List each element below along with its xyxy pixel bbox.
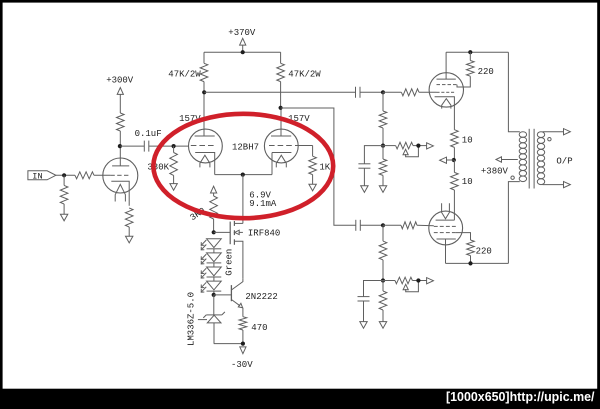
- tube V3 grid: [437, 91, 440, 93]
- resistor R14 220 screen upper: [469, 52, 471, 60]
- tube V2a heater: [200, 155, 210, 167]
- svg-text:12BH7: 12BH7: [232, 142, 259, 152]
- mosfet Q1 channel: [233, 221, 235, 226]
- node G junction gate: [212, 230, 216, 234]
- mosfet Q1 IRF840 gate bar: [229, 222, 231, 245]
- mosfet Q1 drain lead: [234, 222, 243, 224]
- svg-text:2N2222: 2N2222: [245, 292, 277, 302]
- tube V4 envelope: [429, 211, 463, 245]
- ground G6: [379, 186, 386, 193]
- svg-text:10: 10: [462, 177, 473, 187]
- pot P2 wiper: [406, 281, 419, 292]
- svg-text:330K: 330K: [147, 163, 169, 173]
- svg-text:0.1uF: 0.1uF: [135, 129, 162, 139]
- wire C4 to node B1: [360, 224, 383, 226]
- tube V2b grid: [269, 145, 275, 147]
- tube V2a envelope: [189, 129, 223, 163]
- resistor R15 10 upper: [451, 130, 459, 148]
- wire secondary top out: [543, 131, 564, 133]
- transformer T1 secondary phase dot: [548, 138, 551, 141]
- svg-text:[1000x650]http://upic.me/: [1000x650]http://upic.me/: [446, 389, 595, 404]
- ground G8: [379, 322, 386, 329]
- resistor R10 470: [239, 317, 247, 330]
- tube V1 cathode: [111, 181, 129, 206]
- wire R1 to V1 grid: [94, 174, 110, 176]
- tube V2b plate: [271, 135, 291, 137]
- wire top out rail: [446, 51, 508, 53]
- wire C1 to node C: [149, 145, 189, 147]
- svg-text:IRF840: IRF840: [248, 228, 280, 238]
- svg-text:470: 470: [251, 323, 267, 333]
- tube V1 plate: [112, 165, 129, 167]
- resistor R16 10 lower: [453, 160, 455, 172]
- svg-text:+300V: +300V: [106, 75, 134, 85]
- tube V2a cathode: [195, 153, 215, 175]
- wire gate: [214, 231, 231, 233]
- tube V4 cathode: [436, 219, 455, 221]
- ground G3: [170, 184, 177, 191]
- node A junction: [62, 173, 66, 177]
- node F junction V2b plate: [279, 106, 283, 110]
- capacitor C3 to ground: [358, 163, 370, 165]
- node B2 junction: [381, 278, 385, 282]
- wire node K down to Q1 drain: [242, 175, 244, 224]
- diode D5 LM336 ref: [213, 295, 215, 315]
- capacitor C2 coupling upper: [355, 87, 357, 98]
- node P2 junction: [416, 278, 420, 282]
- wire V1 plate to C1: [120, 145, 144, 147]
- svg-text:IN: IN: [32, 172, 42, 182]
- wire V2 cathodes common: [215, 174, 272, 176]
- wire B2 left: [364, 281, 384, 297]
- wire bottom to -30V node: [214, 343, 243, 345]
- resistor R17 grid stopper lower: [401, 222, 417, 229]
- svg-text:220: 220: [478, 67, 494, 77]
- transistor Q2 2N2222 base bar: [230, 285, 232, 301]
- svg-text:O/P: O/P: [556, 157, 572, 167]
- node P1 junction: [416, 144, 420, 148]
- tube V3 heater: [442, 99, 451, 109]
- ground G4: [309, 184, 316, 191]
- resistor R8 1K: [312, 146, 314, 157]
- wire node F right and down: [281, 108, 356, 225]
- ground G5: [361, 186, 368, 193]
- wire node E to C2: [204, 91, 355, 93]
- LED D4 green: [207, 281, 222, 290]
- node N junction cathodes out: [452, 158, 456, 162]
- svg-text:10: 10: [462, 136, 473, 146]
- ground G2: [126, 236, 133, 243]
- mosfet Q1 source lead: [234, 241, 243, 279]
- tube V2b envelope: [264, 129, 298, 163]
- LED D3 green: [207, 267, 222, 276]
- border frame left: [0, 0, 3, 409]
- node +380V center tap arrow: [501, 159, 518, 161]
- wire plate rail lower: [446, 262, 509, 264]
- resistor R20 220 screen lower: [456, 233, 471, 240]
- ground G1: [60, 214, 67, 221]
- wire C2 to node A1: [360, 91, 383, 93]
- node IN port: [28, 171, 56, 180]
- resistor R3 V1 cathode: [125, 208, 133, 227]
- border frame top: [0, 0, 600, 3]
- svg-text:220: 220: [476, 246, 492, 256]
- tube V4 heater: [442, 203, 450, 219]
- wire secondary bottom out: [543, 184, 564, 186]
- tube V1 grid: [110, 174, 114, 176]
- tube V2b heater: [276, 155, 286, 167]
- tube V3 envelope: [429, 73, 463, 107]
- tube V3 cathode: [435, 97, 455, 130]
- tube V4 screen: [434, 232, 438, 234]
- LED D1 green: [207, 239, 222, 248]
- transformer T1 core: [528, 129, 530, 189]
- resistor R12 divider upper: [382, 92, 384, 111]
- node E junction V2a plate: [202, 90, 206, 94]
- svg-text:47K/2W: 47K/2W: [168, 70, 201, 80]
- resistor R4 V1 plate load: [117, 113, 125, 131]
- tube V2b cathode: [272, 152, 291, 154]
- svg-text:9.1mA: 9.1mA: [249, 199, 277, 209]
- tube V4 grid: [434, 225, 438, 227]
- svg-text:47K/2W: 47K/2W: [288, 70, 321, 80]
- node +370V arrow: [240, 38, 246, 45]
- node N feedback arrow: [447, 159, 454, 161]
- tube V1 heater: [115, 184, 125, 201]
- highlight red ellipse: [153, 114, 333, 218]
- potentiometer P1: [396, 142, 413, 149]
- tube V1 envelope: [103, 158, 138, 193]
- resistor R11 grid stopper upper: [401, 89, 419, 96]
- resistor R9 3K9: [210, 196, 218, 219]
- svg-text:-30V: -30V: [231, 360, 253, 370]
- resistor R5 330K: [173, 146, 175, 152]
- node M junction 220: [468, 50, 472, 54]
- pot P1 wiper: [406, 146, 419, 157]
- wire V4 plate to T1 primary bottom: [508, 182, 519, 264]
- node P2 out arrow: [427, 278, 434, 284]
- resistor R2 input shunt: [63, 175, 65, 185]
- svg-text:1K: 1K: [319, 162, 330, 172]
- svg-text:+370V: +370V: [228, 28, 256, 38]
- wire top rail: [204, 51, 281, 53]
- svg-text:LM336Z-5.0: LM336Z-5.0: [187, 292, 197, 346]
- node C junction: [172, 144, 176, 148]
- border frame right: [597, 0, 600, 409]
- node A2 junction: [381, 144, 385, 148]
- resistor R1 grid series: [75, 172, 94, 179]
- wire A2 left: [364, 146, 383, 164]
- svg-text:Green: Green: [225, 249, 235, 276]
- node +300V arrow: [117, 88, 123, 95]
- tube V2a plate: [195, 135, 215, 137]
- svg-text:+380V: +380V: [481, 167, 509, 177]
- potentiometer P2: [395, 277, 412, 284]
- LED D2 green: [207, 253, 222, 262]
- capacitor C5 to ground: [358, 296, 370, 298]
- capacitor C1 0.1uF: [143, 141, 145, 152]
- resistor R18 divider lower: [382, 225, 384, 241]
- node K junction cathodes: [241, 173, 245, 177]
- tube V3 plate: [437, 78, 456, 80]
- wire V3 plate to T1 primary top: [508, 52, 519, 132]
- tube V4 plate: [437, 238, 456, 240]
- capacitor C4 coupling lower: [355, 220, 357, 231]
- bottom watermark bar: [0, 389, 600, 409]
- node Q junction 220 lower: [468, 261, 472, 265]
- ground G7: [360, 322, 367, 329]
- node B1 junction: [381, 223, 385, 227]
- transistor Q2 collector: [231, 279, 243, 290]
- resistor R13 divider lower leg: [382, 146, 384, 159]
- node B junction V1 plate: [118, 144, 122, 148]
- transformer T1 primary winding: [519, 132, 526, 138]
- transformer T1 secondary winding: [537, 132, 544, 138]
- node D junction rail: [241, 50, 245, 54]
- resistor R7 47K/2W right: [280, 52, 282, 63]
- node H junction base: [212, 293, 216, 297]
- node CCS top arrow: [211, 186, 217, 193]
- resistor R6 47K/2W left: [203, 52, 205, 63]
- resistor R19 divider lower leg: [382, 281, 384, 292]
- wire IN to node A: [56, 174, 75, 176]
- transistor Q2 emitter: [231, 300, 240, 306]
- node A1 junction: [381, 90, 385, 94]
- node J junction -30V: [241, 342, 245, 346]
- wire base: [214, 294, 232, 296]
- tube V2a grid: [191, 145, 197, 147]
- transformer T1 primary phase dot: [511, 176, 514, 179]
- node P1 out arrow: [427, 143, 434, 149]
- tube V3 screen: [437, 84, 441, 86]
- mosfet Q1 body arrow: [239, 231, 243, 233]
- node -30V arrow: [240, 347, 246, 354]
